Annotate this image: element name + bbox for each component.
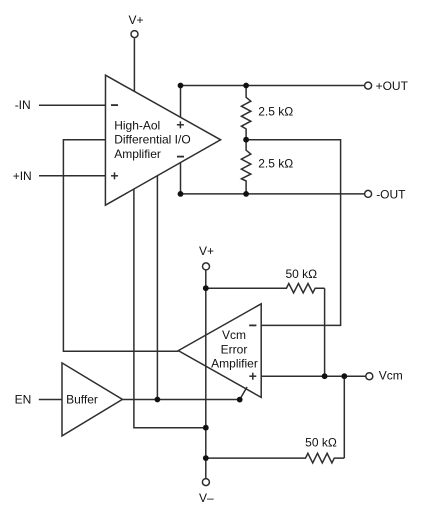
resistor R3 50 kΩ (top) xyxy=(206,267,325,293)
terminal -OUT xyxy=(365,187,407,201)
junction dot buffer output/U2 stub xyxy=(237,397,243,403)
svg-text:-OUT: -OUT xyxy=(376,187,406,201)
wire +IN to U1 xyxy=(39,175,105,177)
junction dot rail/R4 xyxy=(203,455,209,461)
svg-text:50 kΩ: 50 kΩ xyxy=(285,267,317,281)
op-amp U2: Vcm Error Amplifier xyxy=(178,304,261,398)
wire U2 output to U1 Vcm input xyxy=(63,140,178,351)
U1 non-inverting input pin (+) xyxy=(111,172,118,179)
buffer U3 xyxy=(62,363,122,436)
svg-text:2.5 kΩ: 2.5 kΩ xyxy=(258,104,293,118)
wire -OUT net xyxy=(181,193,365,195)
wire U1 + output stub to +OUT net xyxy=(180,86,182,118)
wire R3 to Vcm net xyxy=(324,288,326,376)
wire EN to U3 xyxy=(39,399,62,401)
wire U1 V− supply xyxy=(134,189,206,428)
wire V+/V− rail (middle) xyxy=(205,270,207,478)
terminal V− (bottom) xyxy=(199,479,214,505)
junction dot Vcm net/R4 xyxy=(341,373,347,379)
svg-text:Amplifier: Amplifier xyxy=(114,147,161,161)
wire +OUT net xyxy=(181,85,365,87)
junction dot Vcm net/R3 xyxy=(322,373,328,379)
wire V+ to U1 top edge xyxy=(133,38,135,91)
svg-text:Amplifier: Amplifier xyxy=(211,357,258,371)
U2 inverting input pin (−) xyxy=(249,324,256,326)
svg-text:Error: Error xyxy=(221,342,248,356)
U1 inverting output pin (−) xyxy=(177,156,184,158)
wire U2 + input to Vcm terminal xyxy=(261,375,366,377)
wire shutdown stub into U2 xyxy=(240,387,247,400)
U1 non-inverting output pin (+) xyxy=(177,121,184,128)
svg-text:Vcm: Vcm xyxy=(379,369,403,383)
junction dot +OUT/R1 xyxy=(243,83,249,89)
svg-text:2.5 kΩ: 2.5 kΩ xyxy=(258,157,293,171)
terminal V+ (top) xyxy=(128,13,143,37)
wire node A (R1/R2 midpoint) to U2 − input xyxy=(246,140,341,326)
svg-text:Differential I/O: Differential I/O xyxy=(114,133,190,147)
svg-text:EN: EN xyxy=(15,393,32,407)
terminal V+ (middle) xyxy=(199,244,214,270)
svg-text:Buffer: Buffer xyxy=(66,393,98,407)
junction dot buffer output/U1 branch xyxy=(155,397,161,403)
terminal +OUT xyxy=(365,79,409,93)
svg-text:V+: V+ xyxy=(199,244,214,258)
svg-text:50 kΩ: 50 kΩ xyxy=(305,435,337,449)
wire U3 output branch to U1 shutdown xyxy=(156,176,158,400)
terminal Vcm xyxy=(366,369,403,383)
svg-text:+IN: +IN xyxy=(13,169,32,183)
wire R4 to Vcm net xyxy=(343,376,345,458)
svg-text:High-Aol: High-Aol xyxy=(114,118,160,132)
wire U1 − output stub to -OUT net xyxy=(180,163,182,194)
svg-text:V–: V– xyxy=(199,491,214,505)
U2 non-inverting input pin (+) xyxy=(249,373,256,380)
junction dot -OUT/R2 xyxy=(243,191,249,197)
svg-text:-IN: -IN xyxy=(15,98,31,112)
junction dot V+ rail/R3 xyxy=(203,285,209,291)
wire U3 output to U2 shutdown xyxy=(122,399,239,401)
junction dot node A (R1/R2 mid) xyxy=(243,137,249,143)
resistor R4 50 kΩ (bottom) xyxy=(206,435,344,463)
resistor R1 2.5 kΩ xyxy=(241,86,293,140)
op-amp U1: High-Aol Differential I/O Amplifier xyxy=(105,75,220,205)
svg-text:Vcm: Vcm xyxy=(222,328,246,342)
wire -IN to U1 xyxy=(39,104,105,106)
junction dot -OUT/U1 stub xyxy=(178,191,184,197)
svg-text:V+: V+ xyxy=(128,13,143,27)
svg-text:+OUT: +OUT xyxy=(376,79,409,93)
junction dot rail/U1 V− wire xyxy=(203,425,209,431)
junction dot +OUT/U1 stub xyxy=(178,83,184,89)
resistor R2 2.5 kΩ xyxy=(241,140,293,194)
U1 inverting input pin (−) xyxy=(111,104,118,106)
